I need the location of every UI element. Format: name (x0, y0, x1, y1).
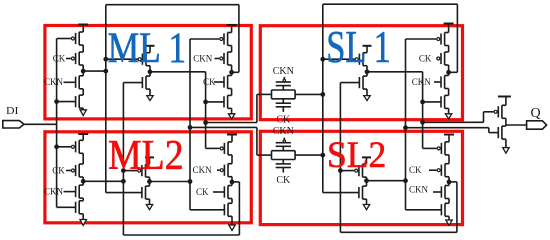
ML2 latch box (45, 132, 251, 223)
svg-text:CK: CK (419, 53, 432, 63)
node B vertical (122, 83, 124, 235)
transmission gate body (272, 89, 296, 91)
PMOS pull-up (362, 164, 364, 177)
gate lead CKN (NMOS) (64, 191, 76, 193)
wire W2 to slave TG1 (206, 122, 257, 124)
wire W3 to slave TG2 (190, 126, 257, 128)
PMOS pull-up (145, 53, 147, 66)
transistor PMOS #1 (78, 140, 80, 153)
ground (80, 220, 86, 226)
transistor NMOS #3 (227, 186, 229, 199)
output node (81, 69, 86, 74)
node D vertical (205, 72, 207, 149)
lower MOS channel bar and plate (276, 102, 291, 104)
transistor NMOS #4 (78, 95, 80, 108)
output node (447, 180, 452, 185)
gate lead CKN (NMOS) (434, 81, 441, 83)
wire sl1 out to VD' (367, 71, 423, 73)
NMOS pull-down (145, 76, 147, 89)
PMOS pull-up (145, 164, 147, 177)
transistor PMOS #1 (78, 32, 80, 45)
svg-text:ML 1: ML 1 (108, 24, 187, 72)
NMOS gate lead (282, 168, 284, 173)
gate lead CKN (PMOS) (215, 58, 220, 60)
wire DI to gate column (24, 123, 57, 125)
VDD symbol (78, 24, 88, 26)
ground (147, 96, 153, 101)
output node sl2 (364, 178, 369, 183)
svg-text:SL2: SL2 (327, 135, 386, 176)
wire SL1 right out to loop (449, 71, 458, 73)
top loop wire SL (323, 3, 458, 5)
output node (230, 180, 235, 185)
svg-text:CKN: CKN (409, 185, 429, 195)
wire T1 gate to DI column (57, 146, 71, 148)
wire T1 gate to VC (190, 38, 219, 40)
wire ML1 right out to loop (232, 71, 239, 73)
ground (146, 205, 152, 210)
NMOS pull-down (501, 126, 503, 139)
PMOS gate bubble and lead (283, 79, 285, 81)
svg-text:CK: CK (53, 53, 66, 63)
N gate lead (489, 132, 499, 134)
svg-text:CK: CK (276, 175, 291, 186)
svg-text:CKN: CKN (44, 187, 64, 197)
wire ml1 out to VD (150, 71, 206, 73)
SL2 latch box (260, 131, 462, 224)
ML1 latch box (45, 26, 251, 119)
wire T1 gate to VC' (406, 38, 437, 40)
svg-text:CKN: CKN (273, 126, 294, 137)
VDD symbol (444, 23, 454, 25)
wire T4 gate to VD (206, 101, 224, 103)
output port Q (527, 121, 547, 129)
node D' vertical (422, 72, 424, 149)
ground (228, 114, 234, 119)
wire T4 gate to DI column (57, 101, 76, 103)
P gate lead (484, 111, 494, 113)
wire TG2 out to node A' (295, 154, 323, 156)
ground (229, 225, 235, 231)
NMOS pull-down (362, 186, 364, 199)
transistor NMOS #3 (227, 76, 229, 89)
node DI gate vertical (56, 39, 58, 208)
transistor NMOS #3 (78, 185, 80, 198)
VDD symbol (227, 24, 237, 26)
upper MOS channel bar and plate (276, 145, 291, 147)
wire into TG1 (257, 93, 272, 95)
gate lead CK (PMOS) (435, 58, 437, 60)
transistor PMOS #1 (444, 33, 446, 46)
gate lead CK (PMOS) (66, 170, 71, 172)
gate lead CK (PMOS) (429, 169, 437, 171)
output node ml1 (148, 69, 153, 74)
NMOS pull-down (145, 186, 147, 199)
PMOS pull-up (501, 105, 503, 118)
svg-text:CK: CK (409, 165, 422, 175)
gate lead CKN (NMOS) (433, 191, 441, 193)
bottom loop wire ML (123, 234, 239, 236)
wire T4 gate to VD' (423, 101, 441, 103)
node C' vertical (405, 39, 407, 210)
wire N gate to node A (106, 192, 142, 194)
wire P gate to node B' (340, 170, 354, 172)
output node (446, 70, 451, 75)
wire TG1 out to node A' (295, 93, 323, 95)
node A vertical (105, 5, 107, 193)
svg-text:Q: Q (531, 106, 541, 121)
wire T4 gate to VC' (406, 209, 442, 211)
svg-text:CKN: CKN (273, 66, 294, 77)
SL1 keeper inverter (363, 45, 372, 47)
transistor PMOS #2 (444, 52, 446, 65)
transmission gate body (272, 150, 296, 152)
svg-text:CKN: CKN (412, 77, 432, 87)
gate lead CK (PMOS) (66, 58, 71, 60)
wire sl2 out to VC' (367, 180, 406, 182)
node B' vertical (339, 83, 341, 233)
SL1 latch box (260, 26, 462, 120)
SL2 keeper inverter (362, 156, 371, 158)
wire ML2 right out to loop (232, 181, 239, 183)
svg-text:SL 1: SL 1 (326, 22, 391, 72)
ground (503, 148, 509, 154)
svg-text:DI: DI (6, 106, 19, 117)
svg-text:ML2: ML2 (108, 133, 184, 179)
VDD symbol (78, 133, 88, 135)
wire into TG2 (257, 154, 272, 156)
PMOS gate bubble and lead (283, 140, 285, 142)
transistor NMOS #4 (227, 203, 229, 216)
svg-text:CKN: CKN (44, 77, 64, 87)
wire P gate to node A' (323, 58, 355, 60)
ground (363, 205, 369, 210)
lower MOS channel bar and plate (276, 163, 291, 165)
top loop wire ML (106, 4, 239, 6)
wire ML1 left out to node A (83, 70, 106, 72)
transistor PMOS #2 (444, 164, 446, 177)
bottom loop wire SL (340, 231, 457, 233)
ground (364, 96, 370, 101)
gate lead CKN (PMOS) (217, 169, 220, 171)
ML1 keeper inverter (146, 45, 155, 47)
transistor PMOS #1 (444, 142, 446, 155)
gate lead CK (NMOS) (213, 191, 224, 193)
wire P gate to node B (123, 170, 137, 172)
wire T4 gate to VC (190, 209, 224, 211)
wire ml2 out to VC (150, 181, 191, 183)
transistor PMOS #1 (227, 142, 229, 155)
svg-text:CK: CK (52, 165, 65, 175)
wire SL2 right out to loop (449, 181, 457, 183)
svg-text:CK: CK (196, 187, 209, 197)
transistor NMOS #4 (227, 95, 229, 108)
wire T1 gate to DI column (57, 38, 71, 40)
transistor PMOS #2 (78, 52, 80, 65)
NMOS pull-down (362, 76, 364, 89)
ground (446, 220, 452, 225)
transistor NMOS #3 (78, 76, 80, 89)
wire W3' to output inverter N gate (406, 127, 489, 129)
wire T4 gate to DI column (57, 206, 76, 208)
ground (80, 110, 86, 116)
NMOS gate lead (282, 107, 284, 112)
transistor NMOS #4 (444, 95, 446, 108)
wire N gate to node B' (340, 82, 359, 84)
gate lead CK (NMOS) (214, 81, 224, 83)
wire W2' to output inverter P gate (423, 121, 484, 123)
ground (445, 114, 451, 119)
output node (229, 70, 234, 75)
VDD symbol (227, 134, 237, 136)
svg-text:CKN: CKN (193, 53, 213, 63)
transistor PMOS #1 (227, 33, 229, 46)
VDD symbol (444, 134, 454, 136)
svg-text:CKN: CKN (193, 165, 213, 175)
wire ML2 left out to node B (83, 180, 123, 182)
transistor NMOS #4 (78, 201, 80, 214)
transistor NMOS #3 (444, 76, 446, 89)
upper MOS channel bar and plate (276, 85, 291, 87)
ML2 keeper inverter (145, 156, 154, 158)
wire N gate to node B (123, 82, 142, 84)
input port DI (3, 121, 24, 128)
transistor PMOS #2 (78, 164, 80, 177)
transistor NMOS #3 (444, 186, 446, 199)
output node (81, 179, 86, 184)
svg-text:CK: CK (276, 115, 291, 126)
transistor NMOS #4 (444, 203, 446, 216)
PMOS pull-up (362, 53, 364, 66)
transistor PMOS #2 (227, 164, 229, 177)
output node ml2 (147, 179, 152, 184)
wire out to Q port (506, 124, 527, 126)
gate lead CKN (NMOS) (64, 81, 76, 83)
wire T1 gate to VD (206, 147, 220, 149)
wire T1 gate to VD' (423, 147, 437, 149)
node C vertical (189, 39, 191, 182)
wire N gate to node A' (323, 192, 359, 194)
wire P gate to node A (106, 58, 138, 60)
node A' vertical (322, 4, 324, 192)
output node sl1 (365, 69, 370, 74)
output inverter U_out (498, 96, 511, 98)
transistor PMOS #2 (227, 52, 229, 65)
